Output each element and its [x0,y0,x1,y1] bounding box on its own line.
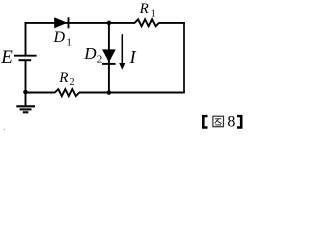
node B junction dot [107,90,112,95]
wire top horizontal left segment (node top-left to junction A to R1) [25,22,136,24]
wire right vertical (top-right corner to bottom-right corner) [183,22,185,93]
diode D1 [54,17,68,28]
wire top horizontal right segment (R1 to top-right corner) [159,22,185,24]
battery E [14,56,37,61]
stray faint dot artifact [4,129,6,131]
svg-text:2: 2 [97,54,103,66]
svg-text:R: R [58,70,68,86]
current arrow I [119,34,125,70]
node A junction dot [107,21,112,26]
caption bracket left 【 [202,115,208,129]
svg-text:R: R [139,1,149,17]
resistor R2 [55,89,79,96]
svg-text:D: D [83,44,97,63]
wire left vertical upper (top-left corner down to battery) [25,22,27,56]
svg-text:1: 1 [66,37,72,49]
caption glyph 图 (figure) [213,116,224,127]
wire bottom horizontal left segment (ground junction to R2) [25,92,56,94]
svg-text:2: 2 [70,77,75,88]
caption bracket right 】 [237,115,243,129]
wire bottom horizontal right segment (R2 to bottom-right corner) [79,92,185,94]
svg-text:1: 1 [151,8,156,19]
svg-text:D: D [53,29,66,46]
svg-text:I: I [129,47,137,67]
node ground junction dot [23,90,28,95]
wire middle vertical branch (junction A through D2 to junction B) [108,23,110,93]
resistor R1 [135,19,159,26]
diode D2 [102,49,116,64]
svg-text:E: E [0,47,13,68]
svg-text:8: 8 [227,113,235,130]
ground [16,93,35,113]
wire left vertical lower (battery down to bottom-left junction) [25,60,27,92]
